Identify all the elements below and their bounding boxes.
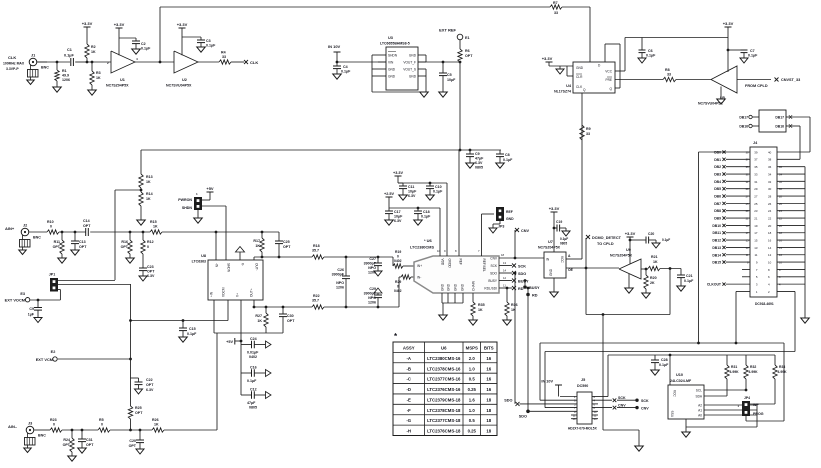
svg-text:36: 36	[768, 165, 772, 169]
svg-text:25: 25	[754, 202, 758, 206]
svg-text:1K: 1K	[511, 308, 516, 312]
svg-text:R18: R18	[313, 244, 320, 248]
svg-text:OPT: OPT	[465, 54, 473, 58]
svg-text:BITS: BITS	[484, 345, 494, 350]
svg-text:0805: 0805	[475, 166, 483, 170]
svg-text:VDD: VDD	[440, 259, 444, 266]
svg-text:J5: J5	[581, 378, 585, 382]
svg-text:MSPS: MSPS	[466, 345, 478, 350]
svg-text:-IN: -IN	[215, 263, 219, 268]
svg-text:-F: -F	[407, 408, 411, 413]
svg-text:C3: C3	[206, 39, 211, 43]
svg-text:30: 30	[768, 187, 772, 191]
svg-text:R4: R4	[221, 51, 226, 55]
svg-text:10: 10	[437, 249, 441, 253]
svg-text:0.1µF: 0.1µF	[341, 70, 351, 74]
svg-text:AIN–: AIN–	[8, 424, 18, 429]
svg-text:R19: R19	[395, 250, 401, 254]
svg-text:C7: C7	[750, 49, 755, 53]
svg-text:IN 10V: IN 10V	[328, 44, 341, 49]
svg-text:0: 0	[53, 423, 55, 427]
svg-text:R22: R22	[313, 294, 320, 298]
svg-text:SCK: SCK	[490, 264, 497, 268]
svg-text:C11: C11	[408, 185, 414, 189]
svg-text:VOCM: VOCM	[222, 287, 226, 297]
svg-text:4.99K: 4.99K	[778, 370, 788, 374]
svg-text:C15: C15	[189, 327, 196, 331]
svg-text:NC7SVU04P5X: NC7SVU04P5X	[166, 84, 192, 88]
svg-text:GND: GND	[506, 217, 514, 221]
svg-text:U6: U6	[441, 345, 447, 350]
svg-text:6.3V: 6.3V	[147, 274, 155, 278]
svg-text:J2: J2	[23, 223, 27, 227]
svg-text:0.1µF: 0.1µF	[421, 215, 431, 219]
svg-text:NPO: NPO	[368, 266, 376, 270]
svg-text:38: 38	[768, 158, 772, 162]
svg-text:OPT: OPT	[287, 319, 295, 323]
svg-text:DB3: DB3	[714, 173, 721, 177]
svg-text:C25: C25	[283, 240, 290, 244]
svg-text:CNV: CNV	[641, 407, 649, 411]
svg-text:-D: -D	[406, 387, 411, 392]
svg-text:0.1µF: 0.1µF	[662, 238, 670, 242]
svg-text:C6: C6	[648, 49, 653, 53]
svg-text:DB0: DB0	[714, 151, 721, 155]
svg-text:27: 27	[754, 194, 758, 198]
svg-text:R2: R2	[91, 45, 96, 49]
svg-text:0.1µF: 0.1µF	[206, 44, 216, 48]
svg-text:R24: R24	[63, 438, 70, 442]
svg-text:VCC: VCC	[605, 70, 612, 74]
svg-text:NPO: NPO	[336, 281, 344, 285]
svg-text:OPT: OPT	[146, 383, 154, 387]
svg-text:LTC2376CMS-18: LTC2376CMS-18	[427, 429, 461, 434]
svg-text:0.5: 0.5	[469, 418, 476, 423]
svg-text:LTC2380CMS-16: LTC2380CMS-16	[427, 356, 461, 361]
svg-text:R5: R5	[99, 418, 104, 422]
svg-text:SDO: SDO	[490, 271, 497, 275]
svg-text:0402: 0402	[394, 259, 402, 263]
svg-text:CHAIN: CHAIN	[471, 280, 475, 291]
svg-text:SDO: SDO	[519, 415, 527, 419]
svg-text:REF: REF	[458, 259, 462, 265]
svg-text:NC7SZ04P5X: NC7SZ04P5X	[610, 254, 633, 258]
svg-text:C20: C20	[648, 232, 654, 236]
svg-text:1206: 1206	[336, 286, 344, 290]
svg-text:HD2X7-079-MOL5X: HD2X7-079-MOL5X	[568, 427, 598, 431]
svg-text:C17: C17	[394, 210, 401, 214]
svg-text:33: 33	[222, 55, 226, 59]
svg-text:R36: R36	[511, 303, 518, 307]
svg-text:16: 16	[486, 377, 491, 382]
svg-text:R32: R32	[750, 365, 756, 369]
svg-text:C19: C19	[556, 220, 562, 224]
svg-text:U8: U8	[201, 254, 206, 258]
svg-text:40: 40	[768, 150, 772, 154]
svg-text:10: 10	[594, 410, 597, 414]
svg-text:VCC: VCC	[560, 256, 564, 263]
svg-text:OPT: OPT	[79, 245, 87, 249]
svg-text:0.25: 0.25	[468, 387, 477, 392]
svg-text:17: 17	[754, 231, 758, 235]
svg-text:R12: R12	[147, 240, 154, 244]
svg-text:13: 13	[754, 246, 758, 250]
svg-text:E3: E3	[20, 292, 25, 296]
svg-text:37: 37	[754, 158, 758, 162]
svg-text:BNC: BNC	[33, 236, 41, 240]
svg-text:V+: V+	[236, 293, 240, 297]
svg-text:4.99K: 4.99K	[730, 370, 740, 374]
svg-text:-G: -G	[406, 418, 411, 423]
svg-text:-H: -H	[406, 429, 411, 434]
svg-text:4.99K: 4.99K	[749, 370, 759, 374]
svg-text:C1: C1	[67, 48, 72, 52]
svg-text:35.7: 35.7	[312, 299, 319, 303]
svg-text:6.3V: 6.3V	[408, 194, 416, 198]
svg-text:GND: GND	[409, 74, 417, 78]
svg-text:CLK: CLK	[250, 60, 258, 65]
svg-text:35.7: 35.7	[312, 249, 319, 253]
svg-text:0.1µF: 0.1µF	[646, 54, 656, 58]
svg-text:DB7: DB7	[714, 202, 721, 206]
svg-text:18: 18	[486, 429, 491, 434]
svg-text:EXT REF: EXT REF	[439, 28, 456, 33]
svg-text:+5V: +5V	[206, 186, 214, 191]
svg-text:AIN+: AIN+	[5, 226, 15, 231]
svg-text:LTC2376CMS-16: LTC2376CMS-16	[427, 387, 461, 392]
svg-text:R23: R23	[50, 418, 57, 422]
svg-text:GND: GND	[453, 283, 457, 291]
svg-text:GND: GND	[446, 283, 450, 291]
svg-text:+3.3V: +3.3V	[393, 171, 403, 175]
svg-text:R33: R33	[779, 365, 785, 369]
svg-text:LTC2379CMS-18: LTC2379CMS-18	[427, 397, 461, 402]
svg-text:DB16: DB16	[775, 125, 784, 129]
svg-text:26: 26	[768, 202, 772, 206]
svg-text:R26: R26	[152, 418, 159, 422]
svg-text:GND: GND	[409, 53, 417, 57]
svg-text:12: 12	[768, 253, 772, 257]
svg-text:R35: R35	[478, 303, 485, 307]
svg-text:13: 13	[573, 417, 576, 421]
svg-text:0.01µF: 0.01µF	[247, 351, 259, 355]
svg-text:6.3V: 6.3V	[394, 219, 402, 223]
svg-text:3900pF: 3900pF	[332, 273, 345, 277]
svg-text:33: 33	[554, 11, 558, 15]
svg-text:OUT+: OUT+	[250, 288, 254, 297]
svg-text:18: 18	[486, 418, 491, 423]
svg-text:3900pF: 3900pF	[364, 292, 377, 296]
svg-text:SCK: SCK	[641, 399, 649, 403]
svg-text:DB15: DB15	[712, 261, 721, 265]
svg-text:GND: GND	[576, 66, 584, 70]
svg-text:C24: C24	[250, 337, 257, 341]
svg-text:GND: GND	[440, 283, 444, 291]
svg-text:DB6: DB6	[714, 195, 721, 199]
svg-text:PROG: PROG	[753, 412, 764, 416]
svg-text:E1: E1	[465, 36, 470, 40]
svg-text:C21: C21	[686, 274, 693, 278]
svg-text:31: 31	[754, 180, 758, 184]
svg-text:* U6: * U6	[424, 238, 433, 243]
svg-text:18: 18	[768, 231, 772, 235]
svg-text:OPT: OPT	[83, 224, 91, 228]
svg-text:VOUT_F: VOUT_F	[403, 60, 416, 64]
svg-text:18: 18	[486, 408, 491, 413]
svg-text:C20: C20	[129, 439, 136, 443]
svg-text:18: 18	[501, 253, 505, 257]
svg-text:LTC2378CMS-16: LTC2378CMS-16	[427, 366, 461, 371]
svg-text:23: 23	[754, 209, 758, 213]
svg-text:22: 22	[768, 216, 772, 220]
svg-text:OUT-: OUT-	[255, 263, 259, 271]
svg-text:-E: -E	[407, 397, 411, 402]
svg-text:OE: OE	[568, 268, 574, 272]
svg-text:13: 13	[503, 261, 507, 265]
svg-text:REF: REF	[506, 210, 513, 214]
svg-text:33: 33	[667, 73, 671, 77]
svg-text:0.1µF: 0.1µF	[433, 190, 443, 194]
svg-text:CLK: CLK	[576, 85, 583, 89]
svg-text:R31: R31	[731, 365, 737, 369]
svg-text:RD: RD	[532, 294, 538, 298]
svg-text:6.3V: 6.3V	[475, 161, 483, 165]
svg-text:2.0: 2.0	[469, 356, 476, 361]
svg-text:16: 16	[768, 238, 772, 242]
svg-text:33: 33	[586, 132, 590, 136]
svg-text:1206: 1206	[368, 301, 376, 305]
svg-text:DCMO_DETECT: DCMO_DETECT	[592, 236, 622, 240]
svg-text:18: 18	[486, 397, 491, 402]
svg-text:LTC2378CMS-18: LTC2378CMS-18	[427, 408, 461, 413]
svg-text:SHDN: SHDN	[182, 206, 193, 210]
svg-text:24: 24	[768, 209, 772, 213]
svg-text:2K: 2K	[650, 281, 655, 285]
svg-text:DB12: DB12	[712, 239, 721, 243]
svg-text:CNVST_33: CNVST_33	[781, 78, 800, 82]
svg-text:C18: C18	[423, 210, 430, 214]
svg-text:0805: 0805	[560, 242, 567, 246]
svg-text:J3: J3	[28, 421, 32, 425]
svg-text:DC918-4691: DC918-4691	[755, 302, 774, 306]
svg-text:GND: GND	[388, 74, 396, 78]
svg-text:1K: 1K	[96, 76, 101, 80]
svg-text:DB13: DB13	[712, 246, 721, 250]
svg-text:R8: R8	[665, 68, 670, 72]
svg-text:DB8: DB8	[714, 209, 721, 213]
svg-text:16: 16	[486, 387, 491, 392]
svg-text:1K: 1K	[154, 423, 159, 427]
svg-text:-B: -B	[406, 366, 411, 371]
svg-text:16: 16	[486, 356, 491, 361]
svg-text:SDO: SDO	[504, 399, 512, 403]
svg-text:NC7SZ04P5X: NC7SZ04P5X	[538, 246, 561, 250]
svg-text:11: 11	[754, 253, 757, 257]
svg-text:+3.3V: +3.3V	[542, 56, 553, 61]
svg-text:R11: R11	[54, 240, 60, 244]
svg-text:OPT: OPT	[53, 245, 61, 249]
svg-text:C9: C9	[29, 307, 34, 311]
svg-text:1K: 1K	[478, 308, 483, 312]
svg-text:15: 15	[754, 238, 758, 242]
svg-text:+3.3V: +3.3V	[549, 206, 560, 211]
svg-text:0805: 0805	[249, 406, 257, 410]
svg-text:C10: C10	[435, 185, 442, 189]
svg-text:DB11: DB11	[713, 231, 722, 235]
svg-text:+3.3V: +3.3V	[82, 21, 93, 26]
svg-text:J1: J1	[31, 53, 35, 57]
svg-text:33: 33	[754, 172, 758, 176]
svg-text:1K: 1K	[146, 197, 151, 201]
svg-text:OPT: OPT	[86, 443, 94, 447]
svg-text:U1: U1	[120, 78, 125, 82]
svg-text:ASSY: ASSY	[403, 345, 415, 350]
svg-text:OPT: OPT	[63, 443, 71, 447]
svg-text:+2.5V: +2.5V	[384, 192, 394, 196]
svg-text:+3.3V: +3.3V	[114, 22, 125, 27]
svg-text:R20: R20	[650, 276, 657, 280]
svg-text:16: 16	[486, 366, 491, 371]
svg-text:LTC2377CMS-18: LTC2377CMS-18	[427, 418, 461, 423]
svg-text:R3: R3	[96, 71, 101, 75]
svg-text:0.1µF: 0.1µF	[684, 279, 694, 283]
svg-text:EXT VCM: EXT VCM	[36, 357, 53, 362]
svg-text:0: 0	[397, 285, 399, 289]
svg-text:10µF: 10µF	[408, 190, 417, 194]
svg-text:47µF: 47µF	[247, 401, 256, 405]
svg-text:0.1µF: 0.1µF	[187, 332, 197, 336]
svg-text:WP: WP	[753, 403, 759, 407]
svg-text:GND: GND	[388, 67, 396, 71]
svg-text:+5V: +5V	[226, 340, 233, 344]
svg-text:39: 39	[754, 150, 758, 154]
svg-text:OPT: OPT	[147, 270, 155, 274]
svg-text:49.9: 49.9	[62, 74, 69, 78]
svg-text:47µF: 47µF	[475, 157, 484, 161]
svg-text:JP4: JP4	[744, 396, 750, 400]
svg-text:PWRON: PWRON	[178, 198, 192, 202]
svg-text:-C: -C	[406, 377, 411, 382]
svg-text:DB2: DB2	[714, 165, 721, 169]
svg-text:LTC6655BHMS8-5: LTC6655BHMS8-5	[380, 42, 410, 46]
svg-text:A1: A1	[698, 409, 702, 413]
svg-text:1K: 1K	[255, 244, 260, 248]
svg-text:1206: 1206	[62, 78, 70, 82]
svg-text:DB14: DB14	[712, 253, 721, 257]
svg-text:CNV: CNV	[618, 404, 626, 408]
svg-text:GND: GND	[460, 283, 464, 291]
svg-text:REF/SEL: REF/SEL	[482, 259, 486, 273]
svg-text:C5: C5	[447, 73, 452, 77]
svg-text:E2: E2	[51, 350, 56, 354]
svg-text:R25: R25	[135, 406, 142, 410]
svg-text:SDA: SDA	[695, 395, 702, 399]
svg-text:R6: R6	[465, 49, 470, 53]
svg-text:R14: R14	[146, 192, 153, 196]
svg-text:1K: 1K	[146, 180, 151, 184]
svg-text:R29: R29	[395, 280, 401, 284]
svg-text:RDL/SDI: RDL/SDI	[484, 286, 497, 290]
svg-text:C2: C2	[141, 42, 146, 46]
svg-text:29: 29	[754, 187, 758, 191]
svg-text:28: 28	[768, 194, 772, 198]
svg-text:1K: 1K	[91, 50, 96, 54]
svg-text:11: 11	[503, 284, 506, 288]
svg-text:0402: 0402	[249, 355, 257, 359]
svg-text:3900pF: 3900pF	[364, 262, 377, 266]
svg-text:C29: C29	[369, 287, 376, 291]
svg-text:JP3: JP3	[498, 225, 504, 229]
svg-text:SCK: SCK	[518, 265, 526, 269]
svg-text:SHDN: SHDN	[388, 53, 398, 57]
svg-text:U2: U2	[182, 78, 187, 82]
svg-text:1.0: 1.0	[469, 366, 476, 371]
svg-text:BUSY: BUSY	[518, 280, 529, 284]
svg-text:R10: R10	[47, 220, 54, 224]
svg-text:0.25: 0.25	[468, 429, 477, 434]
svg-text:JP1: JP1	[49, 273, 55, 277]
svg-text:BNC: BNC	[41, 66, 49, 70]
svg-text:CNV: CNV	[490, 256, 498, 260]
svg-text:IN+: IN+	[417, 264, 422, 268]
svg-text:+IN: +IN	[210, 291, 214, 297]
svg-text:IN-: IN-	[417, 276, 421, 280]
svg-text:OPT: OPT	[283, 245, 291, 249]
svg-text:6.3V: 6.3V	[146, 388, 154, 392]
svg-text:BUSY: BUSY	[529, 286, 540, 290]
svg-text:BUSY: BUSY	[488, 279, 498, 283]
svg-text:0.1µF: 0.1µF	[141, 47, 151, 51]
svg-text:34: 34	[768, 172, 772, 176]
svg-text:3.3VP-P: 3.3VP-P	[6, 67, 19, 71]
svg-text:0.1µF: 0.1µF	[659, 363, 669, 367]
svg-text:PRE: PRE	[605, 78, 612, 82]
svg-text:35: 35	[754, 165, 758, 169]
svg-text:+3.3V: +3.3V	[177, 22, 188, 27]
svg-text:R7: R7	[553, 1, 558, 5]
svg-text:C4: C4	[343, 65, 348, 69]
svg-text:C26: C26	[337, 268, 344, 272]
svg-text:VIN: VIN	[388, 60, 394, 64]
svg-text:VSS: VSS	[671, 411, 675, 417]
svg-text:R16: R16	[121, 240, 128, 244]
svg-text:R9: R9	[586, 127, 591, 131]
svg-text:C14: C14	[83, 219, 90, 223]
svg-text:V-: V-	[241, 263, 245, 266]
svg-text:OVDD: OVDD	[447, 259, 451, 269]
svg-text:C22: C22	[146, 378, 153, 382]
svg-text:C23: C23	[147, 265, 154, 269]
svg-text:DB4: DB4	[714, 180, 721, 184]
svg-text:R13: R13	[146, 175, 153, 179]
svg-text:24LC024-MF: 24LC024-MF	[670, 379, 692, 383]
svg-text:LTC2377CMS-16: LTC2377CMS-16	[427, 377, 461, 382]
svg-text:FROM CPLD: FROM CPLD	[745, 84, 768, 88]
svg-text:CNV: CNV	[521, 229, 529, 233]
svg-text:R21: R21	[651, 255, 658, 259]
svg-text:DB17: DB17	[739, 116, 748, 120]
svg-text:1K: 1K	[153, 225, 158, 229]
svg-text:A0: A0	[698, 414, 702, 418]
svg-text:OPT: OPT	[121, 245, 129, 249]
svg-text:VOUT_S: VOUT_S	[403, 67, 416, 71]
svg-text:12: 12	[594, 414, 597, 418]
svg-text:C31: C31	[86, 438, 93, 442]
svg-text:21: 21	[754, 216, 758, 220]
svg-text:DB17: DB17	[775, 116, 784, 120]
svg-text:SDO: SDO	[518, 272, 526, 276]
svg-text:DB16: DB16	[739, 125, 748, 129]
